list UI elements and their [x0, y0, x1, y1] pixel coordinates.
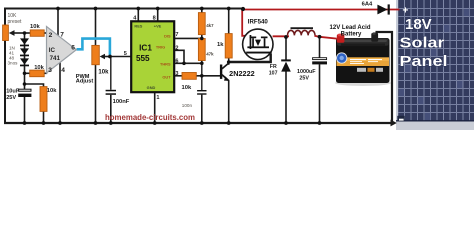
resistor R3 10k (lower left vertical) [40, 87, 47, 112]
svg-text:741: 741 [50, 55, 61, 62]
solar panel PV1 photo [396, 0, 474, 130]
wire: IC741 pin7 to rail [57, 9, 59, 38]
battery positive terminal [337, 34, 345, 43]
svg-text:10uF: 10uF [6, 88, 20, 94]
wire: PWM pot bottom to ground [95, 65, 97, 124]
svg-text:homemade-circuits.com: homemade-circuits.com [105, 113, 195, 122]
svg-text:preset: preset [8, 19, 23, 25]
svg-text:+VE: +VE [154, 24, 162, 29]
diode D1 1N4148 [20, 38, 29, 46]
wire: gate node to IRF540 gate [229, 54, 271, 62]
inductor L1 core line [291, 27, 314, 29]
resistor R7 1k [225, 34, 232, 58]
svg-text:10k: 10k [34, 65, 44, 71]
ground rail arrow into solar panel minus [391, 120, 397, 127]
svg-text:1: 1 [156, 95, 159, 101]
timer U2 IC1 555 box [131, 21, 174, 92]
wire: PWM pot top to rail [95, 9, 97, 46]
wire: top positive rail (black) [4, 8, 244, 10]
svg-text:1k: 1k [217, 42, 224, 48]
svg-text:2N2222: 2N2222 [229, 71, 255, 78]
wire: node to 10k into pin3 [25, 72, 30, 74]
transistor Q1 2N2222 [220, 63, 229, 81]
svg-text:6A4: 6A4 [362, 2, 373, 8]
svg-text:3: 3 [48, 67, 52, 74]
svg-text:FR: FR [270, 64, 277, 70]
wire: divider node vertical (diode chain) [24, 33, 26, 89]
PWM pot wiper arrow [105, 56, 110, 58]
diode D4 FR107 [281, 59, 291, 71]
wire: branch to lower 10k resistor [25, 84, 44, 87]
svg-text:DIS: DIS [164, 33, 171, 38]
svg-text:4: 4 [61, 67, 65, 74]
wire: FR107 vertical [285, 37, 287, 60]
svg-text:IRF540: IRF540 [248, 19, 268, 26]
wire: red IRF540 source to L1 [273, 35, 289, 37]
wire: 555 pin6 line to 47k bottom [174, 62, 202, 64]
svg-text:Battery: Battery [341, 32, 362, 38]
svg-text:THRS: THRS [160, 61, 171, 66]
svg-text:OUT: OUT [162, 74, 171, 79]
svg-text:+: + [403, 6, 409, 17]
wire: gate node down to Q1 collector [228, 62, 230, 65]
svg-text:2: 2 [175, 45, 178, 51]
resistor R5 47k [198, 39, 205, 61]
wire: 555 pin1 to ground [154, 92, 156, 123]
wire: 555 pin3 OUT stub [174, 75, 182, 77]
wire: battery negative to ground/panel [377, 32, 392, 123]
svg-text:6: 6 [71, 45, 75, 52]
battery negative terminal [371, 33, 378, 42]
wire: 4k7 bottom to 47k top [201, 34, 203, 38]
wire: 555 pin7 DIS stub to 4k7/47k junction [174, 37, 202, 39]
inductor L1 coil [288, 30, 316, 35]
svg-text:IC: IC [49, 47, 56, 54]
svg-text:5: 5 [124, 51, 127, 57]
junction dots top rail [56, 7, 245, 12]
svg-text:Solar: Solar [400, 35, 445, 52]
svg-text:3: 3 [175, 71, 178, 77]
svg-text:25V: 25V [299, 76, 309, 82]
svg-text:TRIG: TRIG [156, 45, 165, 50]
wire: 1k bottom to gate node [228, 58, 230, 62]
wire: 1000uF vertical [319, 37, 321, 58]
wire: node to 10k into pin2 [25, 32, 31, 34]
wire: 555 pin2 stub elbow [174, 50, 184, 63]
svg-text:8: 8 [153, 16, 156, 22]
battery B1 12V lead acid photo [335, 32, 391, 86]
junction dots bottom rail [23, 121, 322, 125]
svg-text:2: 2 [49, 32, 53, 39]
svg-text:4k7: 4k7 [206, 23, 214, 28]
resistor R6 10k (base) [182, 73, 196, 80]
wire: 4k7 top lead to rail [201, 8, 203, 13]
svg-text:10k: 10k [182, 85, 192, 91]
wire: IC741 pin4 to ground [59, 62, 61, 123]
svg-text:107: 107 [269, 71, 278, 77]
wire: left rail [4, 8, 6, 124]
svg-text:10k: 10k [98, 70, 109, 76]
svg-text:Panel: Panel [400, 53, 448, 70]
capacitor C4 1000uF 25V [312, 58, 327, 65]
capacitor C2 100nF [106, 90, 116, 95]
capacitor C3 100n [197, 90, 206, 95]
svg-text:GND: GND [147, 85, 156, 90]
svg-text:100nF: 100nF [113, 99, 130, 105]
resistor R1 10k (to pin2) [30, 30, 44, 36]
svg-text:25V: 25V [6, 95, 16, 101]
junction dots mid nodes [23, 31, 322, 86]
wire: bottom ground rail [4, 122, 392, 124]
wire: 1k top lead to rail [228, 9, 230, 34]
resistor R4 4k7 [198, 13, 205, 35]
preset P1 10K body [3, 25, 9, 41]
potentiometer PWM Adjust 10k body [92, 45, 100, 64]
diode D2 1N4148 [20, 48, 29, 56]
svg-text:RES: RES [134, 24, 142, 29]
svg-text:3nos: 3nos [8, 61, 19, 66]
resistor R2 10k (to pin3) [30, 70, 45, 77]
preset wiper arrow [14, 32, 25, 34]
capacitor C1 10uF 25V [18, 89, 31, 97]
svg-text:12V Lead Acid: 12V Lead Acid [330, 25, 371, 31]
wire: Q1 emitter to ground [228, 80, 230, 123]
wire: 555 pin8 to rail [157, 9, 159, 22]
wire: lower 10k to ground [43, 111, 45, 123]
svg-text:555: 555 [136, 54, 150, 63]
wire: base 10k to Q1 base [196, 75, 220, 77]
svg-text:18V: 18V [405, 16, 432, 33]
svg-text:IC1: IC1 [139, 43, 152, 52]
svg-text:100n: 100n [182, 103, 193, 108]
wire: 10uF bottom to ground [24, 97, 26, 123]
svg-text:47k: 47k [206, 52, 214, 57]
svg-text:Adjust: Adjust [76, 78, 94, 84]
op-amp U1 IC741 triangle [47, 27, 77, 74]
wire: 100n cap vertical [201, 63, 203, 90]
wire: red L1 to battery positive [314, 36, 336, 39]
svg-text:1000uF: 1000uF [297, 69, 316, 75]
wire: 555 pin4 to rail [137, 9, 139, 22]
wire: 100nF cap from pin5 node [110, 57, 112, 90]
diode D3 1N4148 [20, 58, 29, 66]
label 18V Solar Panel [400, 16, 448, 70]
solar panel minus terminal [397, 116, 404, 122]
svg-text:6: 6 [175, 58, 178, 64]
svg-text:10k: 10k [30, 24, 40, 30]
wire: red drop to IRF540 drain [242, 9, 251, 36]
mosfet Q2 IRF540 [243, 29, 273, 59]
svg-text:10k: 10k [47, 88, 57, 94]
wire: node to 555 pin5 [110, 56, 132, 58]
wire: cyan IC741 output to 555 pin5 node [77, 39, 110, 56]
svg-text:7: 7 [60, 31, 64, 38]
wire: red positive rail to solar panel [243, 9, 400, 11]
svg-text:7: 7 [175, 32, 178, 38]
wire: 47k bottom lead [201, 60, 203, 63]
diode D5 6A4 [377, 4, 389, 14]
